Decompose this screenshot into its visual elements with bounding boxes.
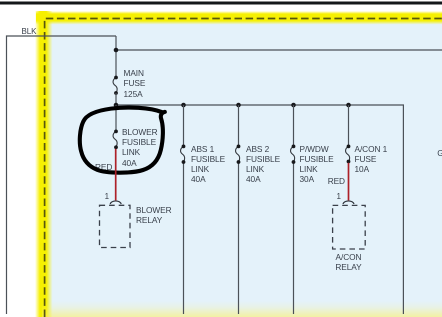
wire: ABS 2 drop xyxy=(238,105,240,314)
node: bus junction blower xyxy=(114,103,119,108)
label G (cut off at right edge) xyxy=(437,148,442,158)
node: bus junction A/CON xyxy=(346,103,351,108)
wire: blower drop xyxy=(115,105,117,131)
label ABS 2 FUSIBLE LINK 40A xyxy=(246,144,280,185)
wire RED to A/CON relay xyxy=(348,163,350,201)
connector pin 1 of blower relay xyxy=(110,201,121,204)
pin 1 (blower relay) xyxy=(105,192,109,202)
wire: ABS 1 drop xyxy=(183,105,185,314)
fusible link ABS 1 40A xyxy=(181,146,185,162)
label ABS 1 FUSIBLE LINK 40A xyxy=(191,144,225,185)
relay box A/CON RELAY (dashed) xyxy=(333,205,366,249)
yellow highlight: top stroke xyxy=(36,11,442,25)
fusible link ABS 2 40A xyxy=(236,146,240,162)
fuse MAIN FUSE 125A xyxy=(113,78,117,94)
pin 1 (A/CON relay) xyxy=(337,192,341,202)
wire BLK (from left edge, up and over to main fuse drop) xyxy=(7,36,117,314)
wire: P/WDW drop xyxy=(293,105,295,314)
wire: feeder to right edge at y=50 xyxy=(116,49,442,51)
label P/WDW FUSIBLE LINK 30A xyxy=(300,144,334,185)
wire RED to blower relay (crosses over annotation) xyxy=(115,149,117,201)
fusible link P/WDW 30A xyxy=(291,146,295,162)
label RED (A/CON wire) xyxy=(328,176,345,186)
yellow highlight: left stroke xyxy=(35,11,53,317)
label BLK xyxy=(22,27,37,37)
node: bus junction P/WDW xyxy=(291,103,296,108)
annotation: hand-drawn circle around blower fusible link xyxy=(80,108,165,173)
wire: main fuse drop (top) xyxy=(115,36,117,78)
relay box BLOWER RELAY (dashed) xyxy=(100,205,131,247)
top border bar (black) xyxy=(0,2,442,5)
label RED (blower wire) xyxy=(95,162,112,172)
wire: main bus at y=105 with right drop xyxy=(116,105,403,314)
label A/CON RELAY xyxy=(328,252,369,273)
wire: A/CON 1 drop xyxy=(348,105,350,146)
node: bus junction ABS 1 xyxy=(181,103,186,108)
fusible link BLOWER 40A xyxy=(113,131,117,147)
label BLOWER RELAY xyxy=(136,205,171,226)
connector pin 1 of A/CON relay xyxy=(343,201,354,204)
label MAIN FUSE 125A xyxy=(124,68,146,99)
node: junction at (116,50) xyxy=(114,48,119,53)
fuse A/CON 1 10A xyxy=(346,146,350,161)
label BLOWER FUSIBLE LINK 40A xyxy=(122,127,157,168)
yellow highlight: bottom stroke (partially visible) xyxy=(42,301,442,317)
node: bus junction ABS 2 xyxy=(236,103,241,108)
wire: fuse to bus xyxy=(115,93,117,105)
label A/CON 1 FUSE 10A xyxy=(355,144,388,175)
